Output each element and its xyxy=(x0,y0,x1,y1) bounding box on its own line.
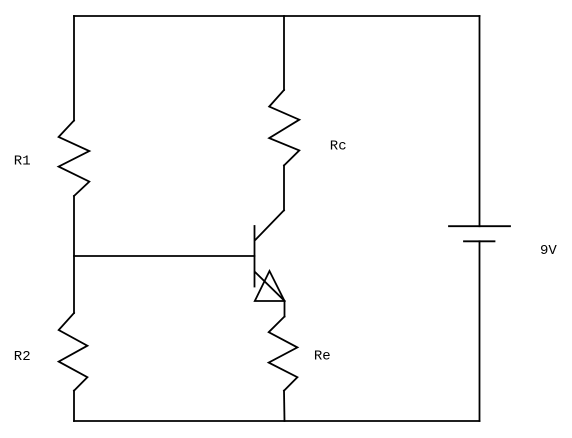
wire top rail xyxy=(74,15,480,17)
wire base (node to transistor base) xyxy=(74,255,255,257)
wire emitter branch lower (Re to ground rail) xyxy=(283,391,286,421)
wire collector lead (Rc to transistor) xyxy=(283,166,285,211)
transistor Q1 base bar xyxy=(254,226,256,287)
resistor Re xyxy=(269,317,298,391)
wire collector branch upper (top rail to Rc) xyxy=(283,16,285,90)
wire bottom rail xyxy=(74,420,480,422)
battery B1 negative plate xyxy=(464,240,495,242)
svg-text:R1: R1 xyxy=(14,154,31,170)
svg-text:R2: R2 xyxy=(14,349,31,365)
transistor Q1 collector diagonal xyxy=(256,210,285,239)
transistor Q1 emitter arrow xyxy=(255,271,285,301)
svg-text:9V: 9V xyxy=(540,243,557,259)
wire right rail upper (top rail to battery) xyxy=(479,16,481,226)
wire right rail lower (battery to ground rail) xyxy=(479,241,481,421)
wire left rail lower (R2 to ground rail) xyxy=(73,391,75,421)
wire left rail middle (R1 to R2 through base node) xyxy=(73,196,75,313)
wire emitter lead (transistor to Re) xyxy=(284,301,286,317)
resistor R2 xyxy=(59,313,88,391)
svg-text:Re: Re xyxy=(314,349,331,365)
wire left rail upper (Vcc to R1) xyxy=(73,16,75,121)
resistor R1 xyxy=(59,121,90,197)
transistor Q1 emitter diagonal xyxy=(255,272,285,301)
svg-text:Rc: Rc xyxy=(330,139,347,155)
resistor Rc xyxy=(269,90,299,166)
battery B1 positive plate xyxy=(449,225,510,227)
